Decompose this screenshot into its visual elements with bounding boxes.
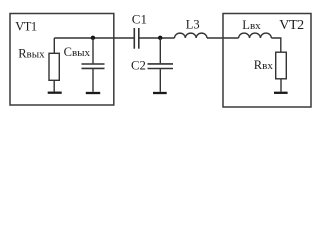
wire Rвх bottom lead <box>280 79 282 92</box>
svg-text:Rвых: Rвых <box>18 46 45 60</box>
inductor L3 <box>175 33 207 38</box>
wire C1 to L3 (node B) <box>140 37 175 39</box>
capacitor Свых <box>82 64 105 68</box>
node A junction dot <box>91 36 95 40</box>
transistor stage box VT2 <box>223 14 311 108</box>
svg-text:Свых: Свых <box>64 45 91 59</box>
capacitor C2 <box>148 64 174 69</box>
svg-text:L3: L3 <box>186 18 200 32</box>
svg-text:Lвх: Lвх <box>242 18 261 32</box>
wire Rвых bottom lead <box>53 80 55 91</box>
node B junction dot <box>158 36 162 40</box>
svg-text:VT2: VT2 <box>279 18 304 33</box>
wire Свых top lead <box>92 38 94 64</box>
svg-text:VT1: VT1 <box>15 20 37 34</box>
wire C2 top lead <box>159 38 161 64</box>
ground (under Rвых) <box>48 92 62 94</box>
resistor Rвх <box>276 52 287 79</box>
ground (under Свых) <box>86 92 100 94</box>
transistor stage box VT1 <box>10 14 114 106</box>
svg-text:C2: C2 <box>131 59 146 73</box>
wire L3 to Lвх <box>207 37 239 39</box>
ground (under C2) <box>153 92 167 94</box>
svg-text:Rвх: Rвх <box>254 58 274 72</box>
wire Rвых top lead <box>53 38 55 53</box>
ground (under Rвх) <box>274 92 288 94</box>
wire node A (VT1 output to C1) <box>54 37 133 39</box>
resistor Rвых <box>49 53 59 80</box>
capacitor C1 <box>134 28 139 49</box>
inductor Lвх <box>239 33 272 38</box>
svg-text:C1: C1 <box>132 12 147 27</box>
wire Свых bottom lead <box>92 69 94 92</box>
wire Lвх to Rвх <box>271 38 280 52</box>
wire C2 bottom lead <box>159 69 161 92</box>
